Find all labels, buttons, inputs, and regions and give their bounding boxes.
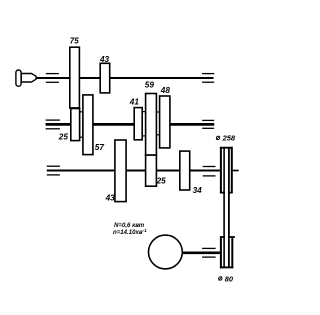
shaft III <box>47 169 220 171</box>
bearing shaft III right <box>203 167 216 176</box>
handwheel knob <box>16 70 21 86</box>
svg-text:48: 48 <box>160 86 171 95</box>
handwheel grip <box>21 74 36 83</box>
gear 59 on shaft II <box>146 94 157 156</box>
gear 43 on shaft III <box>115 140 126 202</box>
svg-text:258: 258 <box>222 134 236 143</box>
svg-text:43: 43 <box>105 194 116 203</box>
pulley d80 on motor shaft <box>220 237 235 269</box>
svg-text:80: 80 <box>225 275 234 284</box>
gear 25 on shaft III <box>146 155 157 186</box>
hub joining gears 25 and 57 <box>80 112 83 137</box>
hub joining gears 59 and 48 <box>156 112 159 135</box>
pulley d258 on shaft III <box>220 147 233 194</box>
gear 57 on shaft II <box>83 95 93 155</box>
label d258 <box>216 134 236 143</box>
svg-text:25: 25 <box>156 177 167 186</box>
svg-text:59: 59 <box>145 81 155 90</box>
gear 48 on shaft II <box>160 96 170 148</box>
shaft III stub right of pulley <box>233 170 239 172</box>
motor shaft <box>183 252 220 255</box>
bearing shaft I left <box>46 74 59 83</box>
bearing shaft III left <box>47 166 60 175</box>
svg-text:n=14.10хв-1: n=14.10хв-1 <box>113 228 147 236</box>
bearing shaft II left <box>46 120 60 129</box>
gear 43 on shaft I <box>100 63 110 93</box>
svg-text:57: 57 <box>95 143 105 152</box>
shaft I <box>36 77 214 79</box>
svg-text:43: 43 <box>99 55 110 64</box>
gear 34 on shaft III <box>180 151 190 190</box>
svg-text:41: 41 <box>129 98 140 107</box>
label d80 <box>219 275 234 284</box>
svg-text:N=0,6 квт: N=0,6 квт <box>114 222 145 229</box>
bearing shaft I right <box>202 74 214 83</box>
bearing shaft II right <box>202 120 214 128</box>
motor M <box>149 235 183 269</box>
hub joining gears 41 and 59 <box>142 112 145 136</box>
shaft II <box>46 123 215 126</box>
belt <box>223 148 225 267</box>
svg-text:25: 25 <box>58 133 69 142</box>
gear 41 on shaft II <box>134 108 142 140</box>
gear 25 on shaft II (left) <box>71 109 80 141</box>
svg-text:75: 75 <box>70 37 79 46</box>
gear 75 on shaft I <box>70 47 80 108</box>
svg-text:34: 34 <box>193 186 203 195</box>
bearing motor shaft <box>202 248 216 257</box>
